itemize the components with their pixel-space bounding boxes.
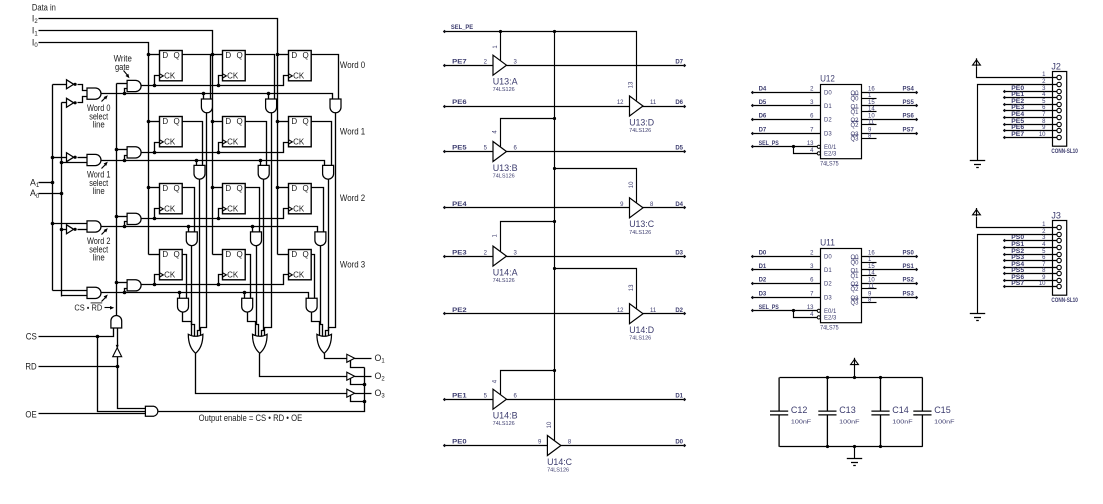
- wire PE2 J2: [1005, 104, 1057, 106]
- wire RD line: [39, 366, 118, 368]
- junction bus U14:A: [553, 220, 556, 223]
- svg-text:PE3: PE3: [1011, 105, 1025, 111]
- wire select to write gate word3: [125, 289, 128, 293]
- read AND gate word2 bit2: [315, 232, 326, 246]
- terminal PS0 J3: [1003, 239, 1006, 242]
- terminal PE1: [443, 398, 446, 401]
- inverter word2 A0: [67, 225, 74, 234]
- svg-text:gate: gate: [115, 62, 130, 72]
- wire PE4 input: [445, 207, 630, 209]
- svg-text:Q1: Q1: [850, 110, 859, 116]
- svg-text:11: 11: [650, 100, 657, 106]
- svg-text:74LS126: 74LS126: [629, 128, 651, 134]
- junction write line CK tap word3 bit1: [217, 283, 221, 287]
- pin circle 7 J3: [1057, 265, 1061, 269]
- svg-text:J3: J3: [1051, 211, 1061, 221]
- svg-text:CK: CK: [227, 271, 239, 280]
- svg-text:13: 13: [807, 141, 814, 147]
- svg-text:74LS126: 74LS126: [629, 230, 651, 236]
- wire word1 select line: [101, 161, 325, 166]
- OR gate bit0 (4-input): [188, 334, 203, 353]
- wire PE1 J2: [1005, 97, 1057, 99]
- junction select line tap word2 bit0: [187, 225, 191, 229]
- svg-text:D3: D3: [824, 132, 832, 138]
- pin circle 5 J3: [1057, 252, 1061, 256]
- wire SEL_PE: [445, 32, 637, 101]
- wire write-enable to write gate word0: [117, 83, 128, 85]
- pin circle 5 J2: [1057, 102, 1061, 106]
- wire CK branch word3 bit0: [155, 275, 160, 285]
- junction select line write tap word0: [123, 92, 127, 96]
- power symbol J3: [973, 210, 981, 215]
- svg-text:U13:A: U13:A: [493, 77, 518, 87]
- svg-text:74LS126: 74LS126: [629, 336, 651, 342]
- junction A0 rail: [60, 192, 64, 196]
- junction select line tap word0 bit1: [267, 92, 271, 96]
- svg-text:PE4: PE4: [1011, 112, 1025, 118]
- junction SEL_PS U11: [792, 309, 795, 312]
- junction data vertical word1 bit0: [147, 120, 151, 124]
- svg-text:U14:B: U14:B: [493, 411, 518, 421]
- wire AND right input down: [117, 329, 119, 348]
- wire D input word3 bit2: [278, 254, 289, 256]
- wire CK branch word3 bit1: [219, 275, 223, 285]
- wire A0 rail: [61, 103, 63, 297]
- wire select tap word1 bit1: [260, 161, 262, 166]
- wire rail to inverter word0 A0: [62, 102, 67, 104]
- svg-text:E2/3: E2/3: [824, 152, 837, 158]
- wire D input word3 bit1: [213, 254, 223, 256]
- svg-text:D3: D3: [675, 250, 683, 256]
- power symbol J2: [973, 60, 981, 65]
- terminal PS5 J3: [1003, 272, 1006, 275]
- wire enable U14:D: [555, 269, 637, 309]
- svg-text:Q: Q: [174, 51, 180, 60]
- terminal PE4 J2: [1003, 116, 1006, 119]
- svg-text:PS1: PS1: [903, 264, 915, 270]
- svg-text:D: D: [291, 117, 297, 126]
- flip-flop word2 bit0: [160, 184, 183, 214]
- junction enable O2: [363, 383, 367, 387]
- wire read gate output word3 bit1: [248, 313, 256, 337]
- svg-text:U14:C: U14:C: [547, 457, 572, 467]
- pin circle 4 J2: [1057, 95, 1061, 99]
- wire Q output word1 bit0: [182, 122, 203, 166]
- pin circle 8 J3: [1057, 271, 1061, 275]
- svg-text:14: 14: [868, 107, 875, 113]
- wire PS0 J3: [1005, 240, 1057, 242]
- pin circle 9 J2: [1057, 128, 1061, 132]
- wire write clock line word2: [142, 209, 289, 219]
- wire Q output word2 bit1: [246, 188, 260, 232]
- wire Q output word3 bit0: [182, 255, 187, 299]
- junction write line CK tap word0 bit1: [217, 84, 221, 88]
- terminal PS5: [915, 104, 918, 107]
- wire Q0-bar stub U12: [862, 98, 877, 100]
- svg-text:Q2: Q2: [850, 123, 859, 129]
- junction ground bottom rail: [853, 445, 856, 448]
- terminal PS2 J3: [1003, 253, 1006, 256]
- svg-text:RD: RD: [25, 362, 36, 372]
- svg-text:PS7: PS7: [1011, 281, 1025, 287]
- wire PS3 from U11: [862, 297, 917, 299]
- wire PS2 J3: [1005, 254, 1057, 256]
- wire capacitor bottom rail: [780, 446, 923, 448]
- wire word0 select line: [101, 94, 333, 99]
- svg-text:C14: C14: [892, 405, 909, 415]
- wire PE3 J2: [1005, 110, 1057, 112]
- junction select line tap word0 bit0: [202, 92, 206, 96]
- terminal PE1 J2: [1003, 96, 1006, 99]
- wire SEL_PS to U12: [753, 146, 818, 148]
- capacitor C13: [818, 378, 836, 447]
- svg-text:U13:C: U13:C: [629, 219, 654, 229]
- terminal SEL_PS U12: [751, 145, 754, 148]
- junction write line CK tap word2 bit0: [153, 217, 157, 221]
- wire PS4 J3: [1005, 267, 1057, 269]
- wire rail to select AND word3 top: [53, 290, 87, 292]
- wire D input word2 bit1: [213, 187, 223, 189]
- junction bus U14:B: [553, 369, 556, 372]
- read AND gate word0 bit0: [201, 99, 212, 113]
- wire read gate output word0 bit1: [265, 113, 272, 337]
- wire write-enable to write gate word3: [117, 282, 128, 284]
- wire A1 input: [39, 182, 53, 184]
- wire D input word2 bit0: [149, 187, 160, 189]
- terminal PE5 J2: [1003, 123, 1006, 126]
- svg-text:E0/1: E0/1: [824, 145, 837, 151]
- wire PE5 input: [445, 151, 493, 153]
- svg-text:CONN-SL10: CONN-SL10: [1051, 149, 1078, 155]
- svg-text:CK: CK: [164, 72, 176, 81]
- svg-text:CK: CK: [164, 138, 176, 147]
- AND gate CS.RD (pointing up): [111, 316, 122, 328]
- select line arrow word0: [102, 97, 107, 102]
- svg-text:14: 14: [868, 271, 875, 277]
- pin circle 10 J3: [1057, 284, 1061, 288]
- svg-text:PS2: PS2: [903, 277, 915, 283]
- terminal D0 U11: [751, 255, 754, 258]
- svg-text:15: 15: [868, 264, 875, 270]
- wire write clock line word1: [142, 143, 289, 153]
- svg-text:D0: D0: [759, 250, 767, 256]
- svg-text:D0: D0: [824, 90, 832, 96]
- junction select line tap word3 bit1: [243, 291, 247, 295]
- inverter word0 A0: [67, 98, 74, 107]
- wire power to pin1 J2: [977, 67, 1057, 78]
- wire read gate output word1 bit1: [262, 180, 264, 337]
- svg-text:CONN-SL10: CONN-SL10: [1051, 298, 1078, 304]
- svg-text:D2: D2: [824, 117, 832, 123]
- output buffer O1: [347, 354, 355, 362]
- wire I2 data line: [39, 19, 278, 255]
- svg-text:C13: C13: [839, 405, 856, 415]
- wire O1 output: [355, 358, 372, 360]
- terminal D2 U11: [751, 282, 754, 285]
- buffer U13:B 74LS126: [493, 142, 507, 162]
- pin circle 3 J2: [1057, 89, 1061, 93]
- terminal PE6: [443, 105, 446, 108]
- flip-flop word0 bit1: [223, 51, 246, 81]
- svg-text:Data in: Data in: [32, 2, 56, 12]
- terminal D1: [683, 398, 686, 401]
- wire CK branch word2 bit0: [155, 209, 160, 219]
- svg-text:D: D: [162, 184, 168, 193]
- terminal PE7 J2: [1003, 136, 1006, 139]
- svg-text:Q: Q: [303, 250, 309, 259]
- wire CK branch word1 bit0: [155, 143, 160, 153]
- junction data vertical word2 bit2: [276, 186, 280, 190]
- pin circle 1 J3: [1057, 225, 1061, 229]
- wire PE2 input: [445, 313, 630, 315]
- junction A1 rail: [51, 181, 55, 185]
- svg-text:OE: OE: [25, 409, 36, 419]
- svg-text:PE5: PE5: [452, 146, 467, 152]
- pin circle 7 J2: [1057, 115, 1061, 119]
- ground symbol J3: [970, 314, 985, 321]
- wire rail to inverter word1: [53, 157, 67, 159]
- svg-text:Q: Q: [303, 51, 309, 60]
- inverter word1 A1: [67, 153, 74, 162]
- svg-text:D: D: [225, 250, 231, 259]
- terminal D4 U12: [751, 91, 754, 94]
- svg-text:13: 13: [628, 81, 634, 88]
- wire PE0 input: [445, 445, 548, 447]
- wire Q3-bar stub U12: [862, 138, 877, 140]
- wire A0 input: [39, 193, 62, 195]
- svg-text:U13:B: U13:B: [493, 163, 518, 173]
- word3 select AND gate: [87, 287, 101, 298]
- junction enable O3: [363, 400, 367, 404]
- wire inverter to select AND word0 bottom: [78, 97, 87, 103]
- svg-text:PE1: PE1: [452, 393, 467, 399]
- junction data vertical word1 bit2: [276, 120, 280, 124]
- terminal SEL_PS U11: [751, 309, 754, 312]
- wire D6 to U12: [753, 119, 821, 121]
- wire PS2 from U11: [862, 283, 917, 285]
- write gate AND word3: [127, 280, 141, 291]
- wire select tap word3 bit0: [179, 293, 181, 299]
- wire Q1-bar stub U12: [862, 111, 877, 113]
- junction bus U14:D: [553, 267, 556, 270]
- svg-text:Q1: Q1: [850, 274, 859, 280]
- svg-text:Q: Q: [237, 250, 243, 259]
- svg-text:74LS75: 74LS75: [820, 326, 839, 332]
- svg-text:10: 10: [547, 421, 553, 428]
- wire O3 output: [355, 393, 372, 395]
- wire PE1 input: [445, 399, 493, 401]
- wire enable O1: [351, 361, 365, 368]
- wire Q output word1 bit2: [311, 122, 332, 166]
- svg-text:PE0: PE0: [452, 440, 467, 446]
- junction select line write tap word2: [123, 225, 127, 229]
- wire CK branch word1 bit1: [219, 143, 223, 153]
- wire inverter to select AND word2: [78, 229, 87, 231]
- svg-text:10: 10: [868, 113, 875, 119]
- wire rail to inverter word0 A1: [53, 84, 67, 86]
- wire D input word0 bit0: [149, 54, 160, 56]
- capacitor C12: [770, 378, 788, 447]
- svg-text:D1: D1: [759, 264, 767, 270]
- wire PE0 J2: [1005, 91, 1057, 93]
- svg-text:74LS126: 74LS126: [493, 278, 515, 284]
- wire PS4 from U12: [862, 92, 917, 94]
- wire word2 select line: [101, 227, 318, 232]
- svg-text:13: 13: [629, 284, 635, 291]
- svg-text:PE3: PE3: [452, 250, 467, 256]
- svg-text:D2: D2: [759, 277, 767, 283]
- svg-text:74LS75: 74LS75: [820, 162, 839, 168]
- latch U11 74LS75 box: [821, 249, 862, 323]
- enable bubbles U12: [817, 145, 820, 148]
- select line arrow word1: [102, 164, 107, 169]
- terminal PS1 J3: [1003, 246, 1006, 249]
- svg-text:74LS126: 74LS126: [493, 87, 515, 93]
- terminal D0: [683, 444, 686, 447]
- svg-text:D1: D1: [824, 104, 832, 110]
- svg-text:Word 0: Word 0: [340, 60, 365, 70]
- inverter pointing up (RD): [113, 348, 122, 357]
- wire enable O3: [351, 396, 365, 402]
- wire OR output bit2: [325, 354, 347, 359]
- pin circle 1 J2: [1057, 75, 1061, 79]
- svg-text:line: line: [93, 253, 105, 263]
- svg-text:CS: CS: [26, 332, 37, 342]
- svg-text:D6: D6: [759, 113, 767, 119]
- svg-text:PE6: PE6: [452, 100, 467, 106]
- wire PS1 from U11: [862, 269, 917, 271]
- svg-text:line: line: [93, 120, 105, 130]
- junction data vertical word2 bit0: [147, 186, 151, 190]
- svg-text:PS1: PS1: [1011, 242, 1025, 248]
- svg-text:PE7: PE7: [1011, 132, 1025, 138]
- svg-text:E2/3: E2/3: [824, 316, 837, 322]
- AND gate output enable (3-input): [145, 406, 157, 416]
- wire PS5 from U12: [862, 105, 917, 107]
- wire power to top rail: [854, 366, 856, 378]
- wire Q output word2 bit0: [182, 188, 195, 232]
- svg-text:10: 10: [629, 181, 635, 188]
- terminal D6 U12: [751, 118, 754, 121]
- write gate AND word1: [127, 147, 141, 158]
- OR gate bit1 (4-input): [253, 334, 268, 353]
- svg-text:CS • RD: CS • RD: [74, 303, 102, 313]
- wire rail to select AND word1 bottom: [62, 162, 87, 164]
- wire OE line: [39, 413, 146, 415]
- wire D4 to U12: [753, 92, 821, 94]
- ground symbol J2: [970, 161, 985, 168]
- junction write enable word2: [115, 215, 119, 219]
- terminal PE2 J2: [1003, 103, 1006, 106]
- svg-text:PS7: PS7: [903, 128, 915, 134]
- wire D4 output: [643, 207, 685, 209]
- wire read gate output word2 bit0: [192, 246, 195, 337]
- wire write-enable to write gate word1: [117, 149, 128, 151]
- pin circle 9 J3: [1057, 278, 1061, 282]
- pin circle 10 J2: [1057, 135, 1061, 139]
- svg-text:16: 16: [868, 250, 875, 256]
- wire D0 output: [561, 445, 685, 447]
- svg-text:D: D: [291, 51, 297, 60]
- svg-text:CK: CK: [227, 138, 239, 147]
- read AND gate word2 bit0: [186, 232, 197, 246]
- select line arrow word3: [102, 297, 107, 302]
- write gate AND word0: [127, 80, 141, 91]
- junction select line write tap word3: [123, 291, 127, 295]
- junction bottom rail C13: [826, 445, 829, 448]
- junction write line CK tap word2 bit1: [217, 217, 221, 221]
- svg-text:Q3: Q3: [850, 137, 859, 143]
- buffer U14:B 74LS126: [493, 389, 507, 409]
- terminal PE0 J2: [1003, 90, 1006, 93]
- junction bus U13:C: [553, 167, 556, 170]
- wire CK branch word0 bit0: [155, 76, 160, 86]
- svg-text:D: D: [225, 184, 231, 193]
- wire read gate output word0 bit2: [329, 113, 336, 337]
- junction RD line: [116, 365, 120, 369]
- wire PE5 J2: [1005, 124, 1057, 126]
- wire SEL_PS branch U12: [794, 147, 818, 154]
- pin circle 2 J2: [1057, 82, 1061, 86]
- wire D5 to U12: [753, 105, 821, 107]
- svg-text:PS0: PS0: [1011, 235, 1025, 241]
- wire Q0-bar stub U11: [862, 262, 877, 264]
- terminal SEL_PE: [443, 30, 446, 33]
- svg-text:D1: D1: [824, 268, 832, 274]
- wire PE7 J2: [1005, 137, 1057, 139]
- arrow CS.RD: [105, 307, 111, 309]
- buffer U13:A 74LS126: [493, 55, 507, 75]
- svg-text:11: 11: [868, 120, 875, 126]
- svg-text:74LS126: 74LS126: [493, 174, 515, 180]
- svg-text:10: 10: [868, 277, 875, 283]
- svg-text:D5: D5: [675, 146, 683, 152]
- svg-text:D7: D7: [759, 128, 767, 134]
- wire PS1 J3: [1005, 247, 1057, 249]
- svg-text:PS5: PS5: [903, 100, 915, 106]
- svg-text:CK: CK: [164, 271, 176, 280]
- pin circle 4 J3: [1057, 245, 1061, 249]
- pin circle 3 J3: [1057, 238, 1061, 242]
- flip-flop word2 bit1: [223, 184, 246, 214]
- wire word3 select line: [101, 293, 309, 299]
- wire write clock line word0: [142, 76, 289, 86]
- select line arrow word2: [102, 230, 107, 235]
- wire Q output word3 bit2: [311, 255, 315, 299]
- pin circle 6 J3: [1057, 258, 1061, 262]
- wire PS3 J3: [1005, 260, 1057, 262]
- junction select line tap word3 bit0: [178, 291, 182, 295]
- OR gate bit2 (4-input): [317, 334, 332, 353]
- wire select tap word1 bit0: [196, 161, 198, 166]
- read AND gate word2 bit1: [251, 232, 262, 246]
- wire select tap word3 bit1: [244, 293, 246, 299]
- junction power top rail: [853, 376, 856, 379]
- svg-text:C12: C12: [791, 405, 808, 415]
- wire enable U13:A: [500, 32, 502, 61]
- wire enable U13:C: [555, 169, 637, 203]
- capacitor C15: [913, 378, 931, 447]
- wire Q2-bar stub U12: [862, 124, 877, 126]
- arrowhead on inverter: [116, 345, 119, 349]
- terminal D5: [683, 150, 686, 153]
- svg-text:CK: CK: [227, 72, 239, 81]
- wire D2 to U11: [753, 283, 821, 285]
- wire OR output bit0: [196, 354, 347, 394]
- svg-text:12: 12: [617, 100, 624, 106]
- wire CK branch word0 bit1: [219, 76, 223, 86]
- junction write enable word3: [115, 281, 119, 285]
